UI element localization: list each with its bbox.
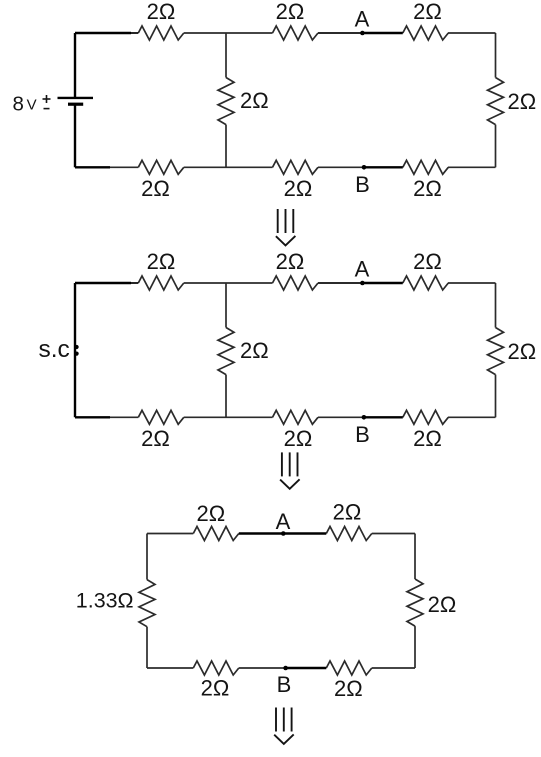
svg-text:2Ω: 2Ω <box>284 426 313 451</box>
svg-text:2Ω: 2Ω <box>413 176 442 201</box>
svg-text:2Ω: 2Ω <box>428 592 457 617</box>
svg-text:2Ω: 2Ω <box>333 500 362 525</box>
svg-text:2Ω: 2Ω <box>508 339 537 364</box>
svg-text:2Ω: 2Ω <box>196 501 225 526</box>
svg-text:2Ω: 2Ω <box>147 249 176 274</box>
svg-text:2Ω: 2Ω <box>141 426 170 451</box>
svg-text:2Ω: 2Ω <box>240 88 269 113</box>
svg-text:V: V <box>27 97 37 114</box>
svg-text:A: A <box>355 7 370 32</box>
svg-text:2Ω: 2Ω <box>276 249 305 274</box>
svg-text:A: A <box>355 257 370 282</box>
svg-text:A: A <box>276 509 291 534</box>
svg-text:8: 8 <box>13 93 24 116</box>
svg-text:1.33Ω: 1.33Ω <box>76 590 134 613</box>
svg-text:2Ω: 2Ω <box>284 176 313 201</box>
svg-text:2Ω: 2Ω <box>276 0 305 24</box>
svg-text:2Ω: 2Ω <box>201 676 230 701</box>
svg-text:2Ω: 2Ω <box>147 0 176 24</box>
svg-text:2Ω: 2Ω <box>413 249 442 274</box>
svg-text:B: B <box>355 172 370 197</box>
svg-text:2Ω: 2Ω <box>240 338 269 363</box>
svg-text:B: B <box>277 672 292 697</box>
svg-text:B: B <box>355 422 370 447</box>
svg-text:s.c: s.c <box>39 336 70 363</box>
svg-text:2Ω: 2Ω <box>413 0 442 24</box>
svg-text:2Ω: 2Ω <box>141 176 170 201</box>
svg-text:2Ω: 2Ω <box>413 426 442 451</box>
svg-text:2Ω: 2Ω <box>508 89 537 114</box>
svg-text:2Ω: 2Ω <box>334 676 363 701</box>
